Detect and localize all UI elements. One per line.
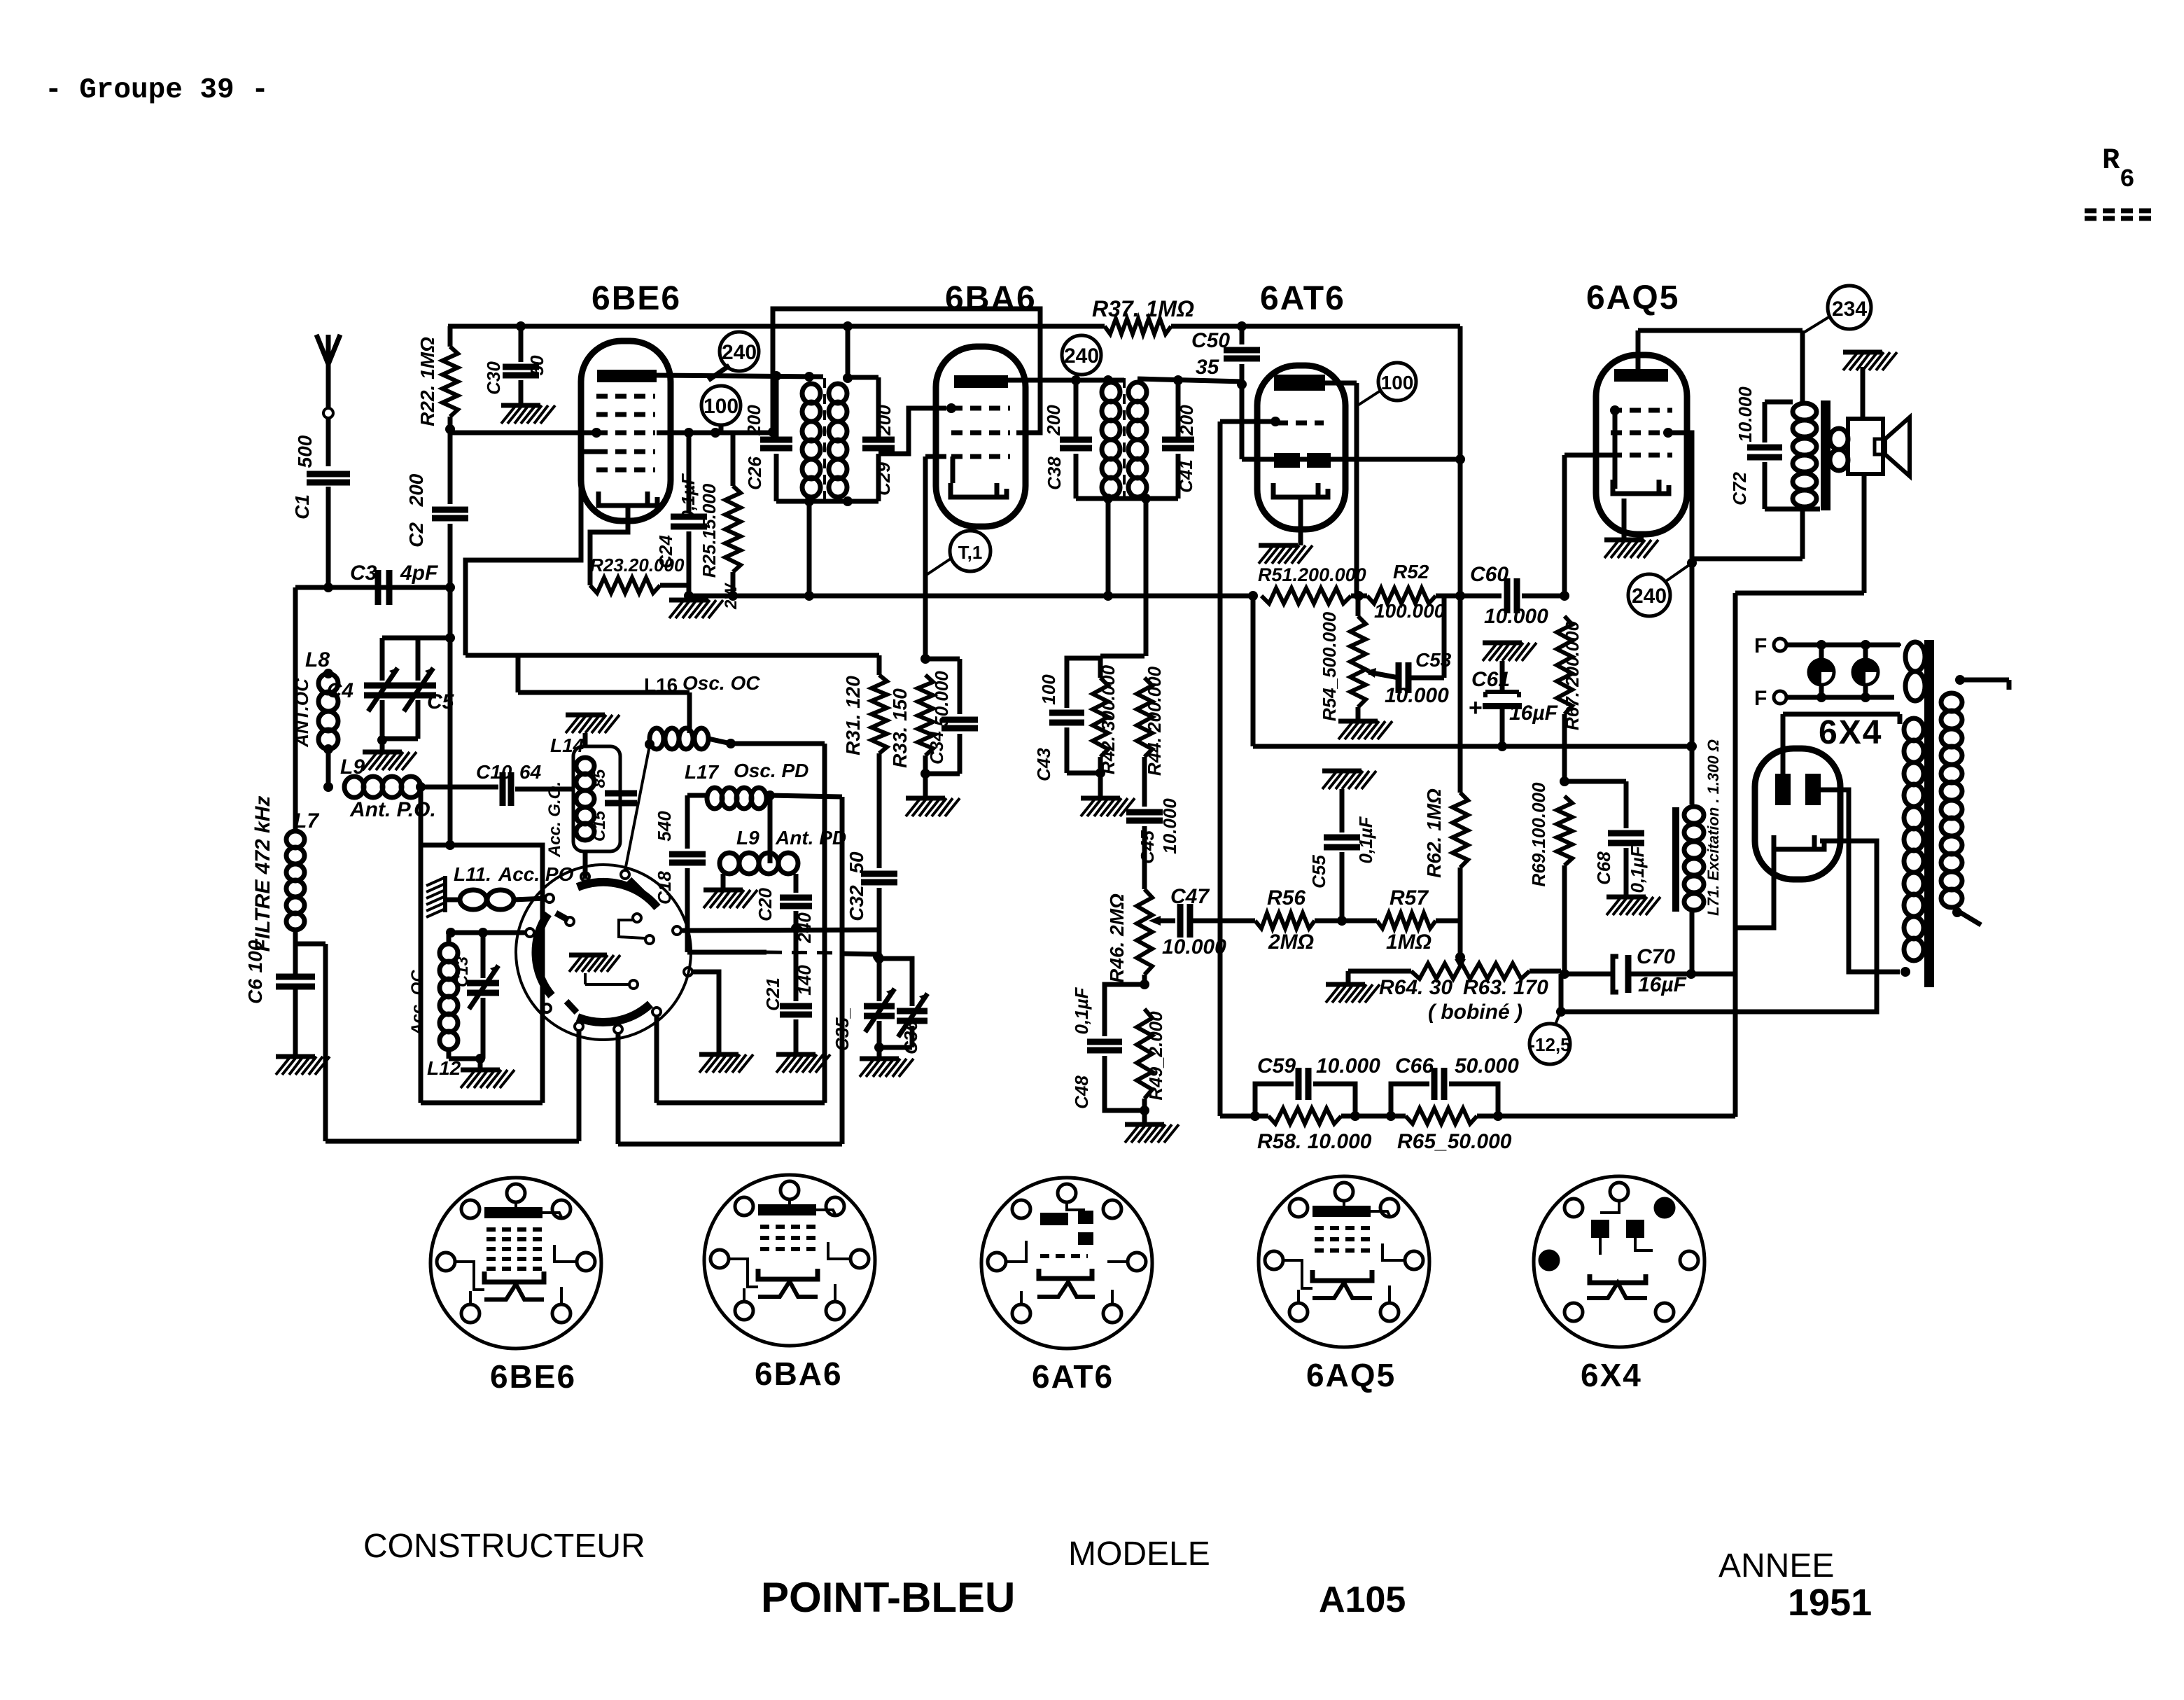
- svg-text:200: 200: [405, 473, 427, 507]
- svg-text:C24: C24: [655, 535, 676, 569]
- svg-text:C41: C41: [1175, 459, 1196, 493]
- svg-text:10.000: 10.000: [1316, 1054, 1380, 1078]
- svg-text:10.000: 10.000: [1159, 798, 1180, 854]
- svg-text:240: 240: [1064, 344, 1099, 368]
- svg-text:L7: L7: [294, 809, 319, 832]
- svg-text:10.000: 10.000: [1484, 605, 1548, 628]
- svg-text:6AT6: 6AT6: [1260, 280, 1345, 317]
- svg-text:1951: 1951: [1788, 1582, 1872, 1624]
- svg-text:T,1: T,1: [958, 542, 983, 563]
- svg-text:R: R: [2102, 144, 2120, 177]
- svg-text:R52: R52: [1393, 561, 1429, 583]
- svg-text:R49_2.000: R49_2.000: [1145, 1011, 1166, 1101]
- svg-text:R37. 1MΩ: R37. 1MΩ: [1092, 296, 1194, 321]
- svg-text:6BE6: 6BE6: [591, 280, 681, 317]
- svg-text:10.000: 10.000: [1162, 935, 1226, 959]
- svg-text:C6: C6: [244, 979, 266, 1004]
- svg-text:L9: L9: [736, 827, 759, 849]
- svg-text:( bobiné ): ( bobiné ): [1428, 1001, 1522, 1024]
- svg-text:C47: C47: [1170, 885, 1210, 908]
- svg-text:Acc. G.O.: Acc. G.O.: [545, 781, 564, 858]
- svg-text:16µF: 16µF: [1509, 702, 1558, 725]
- svg-text:140: 140: [794, 965, 815, 996]
- svg-text:A105: A105: [1319, 1580, 1406, 1620]
- svg-text:6BE6: 6BE6: [490, 1358, 576, 1395]
- svg-text:R65_50.000: R65_50.000: [1397, 1130, 1512, 1153]
- svg-text:C26: C26: [744, 457, 765, 490]
- svg-text:35: 35: [1196, 356, 1220, 379]
- svg-text:L14: L14: [550, 734, 584, 756]
- svg-text:L17: L17: [685, 761, 720, 783]
- svg-text:6X4: 6X4: [1819, 714, 1882, 751]
- svg-text:R22. 1MΩ: R22. 1MΩ: [416, 337, 438, 426]
- svg-text:C35_: C35_: [832, 1008, 853, 1051]
- svg-text:R51.200.000: R51.200.000: [1258, 564, 1366, 585]
- svg-text:R46. 2MΩ: R46. 2MΩ: [1106, 893, 1128, 983]
- svg-text:540: 540: [654, 811, 675, 842]
- svg-text:C10: C10: [476, 761, 512, 783]
- svg-text:C20: C20: [755, 888, 776, 921]
- svg-text:200: 200: [874, 405, 895, 436]
- svg-text:R33. 150: R33. 150: [889, 688, 911, 768]
- svg-text:FILTRE 472 kHz: FILTRE 472 kHz: [251, 796, 274, 952]
- svg-text:C48: C48: [1071, 1075, 1092, 1109]
- svg-text:50: 50: [526, 355, 547, 375]
- svg-text:200: 200: [1043, 405, 1064, 436]
- svg-text:L8: L8: [305, 648, 330, 671]
- svg-text:2MΩ: 2MΩ: [1268, 931, 1314, 954]
- svg-text:0,1µF: 0,1µF: [1627, 845, 1648, 893]
- svg-text:C66: C66: [1395, 1054, 1434, 1078]
- svg-text:100: 100: [703, 395, 738, 418]
- svg-text:C21: C21: [762, 977, 783, 1011]
- svg-text:R69.100.000: R69.100.000: [1528, 782, 1549, 886]
- svg-text:C43: C43: [1033, 748, 1054, 781]
- svg-text:- Groupe 39 -: - Groupe 39 -: [45, 74, 269, 106]
- svg-text:-12,5: -12,5: [1529, 1034, 1570, 1055]
- svg-text:L16: L16: [644, 674, 678, 696]
- svg-text:C36: C36: [900, 1021, 921, 1054]
- svg-text:R58. 10.000: R58. 10.000: [1257, 1130, 1372, 1153]
- svg-text:6AQ5: 6AQ5: [1306, 1357, 1396, 1393]
- svg-text:C61: C61: [1471, 668, 1510, 691]
- svg-text:C68: C68: [1593, 851, 1614, 885]
- svg-text:C55: C55: [1308, 855, 1329, 889]
- svg-text:R57: R57: [1389, 886, 1429, 910]
- svg-text:C29: C29: [873, 462, 894, 496]
- svg-text:6BA6: 6BA6: [755, 1356, 843, 1392]
- svg-text:+: +: [1469, 695, 1483, 721]
- svg-text:L12: L12: [427, 1057, 461, 1079]
- svg-text:Acc. PO: Acc. PO: [498, 863, 574, 885]
- svg-text:200: 200: [1176, 405, 1197, 436]
- svg-text:L11.: L11.: [454, 863, 491, 885]
- svg-text:C32: C32: [846, 885, 867, 921]
- svg-text:200: 200: [743, 405, 764, 436]
- svg-text:50: 50: [846, 851, 867, 874]
- svg-text:240: 240: [1632, 585, 1667, 608]
- svg-text:C45: C45: [1137, 830, 1158, 864]
- svg-text:R25.15.000: R25.15.000: [699, 483, 720, 578]
- svg-text:C50: C50: [1191, 329, 1230, 352]
- svg-text:0,1µF: 0,1µF: [1071, 987, 1092, 1034]
- svg-text:4pF: 4pF: [400, 562, 438, 585]
- svg-text:6AQ5: 6AQ5: [1586, 279, 1679, 316]
- svg-text:F: F: [1754, 687, 1767, 710]
- svg-text:C13: C13: [453, 956, 472, 987]
- svg-text:MODELE: MODELE: [1068, 1535, 1210, 1573]
- svg-text:6AT6: 6AT6: [1032, 1358, 1114, 1395]
- svg-text:50.000: 50.000: [931, 671, 952, 727]
- svg-text:500: 500: [294, 435, 316, 468]
- svg-text:C3: C3: [350, 562, 377, 585]
- svg-text:F: F: [1754, 634, 1767, 657]
- svg-text:CONSTRUCTEUR: CONSTRUCTEUR: [363, 1528, 645, 1565]
- svg-text:6: 6: [2120, 165, 2135, 194]
- svg-text:C70: C70: [1637, 945, 1675, 968]
- svg-text:Ant. PD: Ant. PD: [775, 827, 846, 849]
- svg-text:0,1µF: 0,1µF: [1355, 816, 1376, 863]
- svg-text:C72: C72: [1729, 472, 1750, 506]
- svg-text:R64. 30: R64. 30: [1379, 976, 1452, 999]
- svg-text:6BA6: 6BA6: [945, 280, 1037, 317]
- svg-text:L71. Excitation . 1.300 Ω: L71. Excitation . 1.300 Ω: [1704, 739, 1722, 916]
- svg-text:R63. 170: R63. 170: [1463, 976, 1548, 999]
- svg-text:C1: C1: [291, 494, 313, 520]
- svg-text:Osc. PD: Osc. PD: [734, 760, 808, 781]
- svg-text:C38: C38: [1044, 457, 1065, 490]
- svg-text:100: 100: [1381, 372, 1414, 393]
- svg-text:85: 85: [590, 769, 609, 788]
- svg-text:R54_500.000: R54_500.000: [1319, 611, 1340, 721]
- svg-text:POINT-BLEU: POINT-BLEU: [761, 1574, 1015, 1621]
- svg-text:16µF: 16µF: [1638, 973, 1687, 996]
- svg-text:C60: C60: [1470, 563, 1508, 586]
- svg-text:100.000: 100.000: [1374, 600, 1445, 622]
- svg-text:100: 100: [1038, 674, 1059, 705]
- svg-text:L9: L9: [340, 755, 365, 779]
- svg-text:C4: C4: [327, 679, 354, 702]
- svg-text:Acc. OC: Acc. OC: [408, 970, 427, 1036]
- svg-text:10.000: 10.000: [1735, 386, 1756, 443]
- svg-text:R62. 1MΩ: R62. 1MΩ: [1423, 788, 1445, 878]
- svg-text:6X4: 6X4: [1581, 1357, 1642, 1393]
- svg-text:240: 240: [722, 341, 757, 364]
- svg-text:C59: C59: [1257, 1054, 1296, 1078]
- svg-text:0,1µF: 0,1µF: [678, 473, 699, 520]
- svg-text:R31. 120: R31. 120: [842, 676, 864, 755]
- svg-text:C53: C53: [1415, 649, 1452, 671]
- svg-text:C2: C2: [405, 522, 427, 548]
- svg-text:C30: C30: [483, 361, 504, 395]
- svg-text:1MΩ: 1MΩ: [1386, 931, 1431, 954]
- svg-text:234: 234: [1832, 298, 1867, 321]
- svg-text:ANT.OC: ANT.OC: [291, 678, 312, 748]
- svg-text:ANNEE: ANNEE: [1718, 1547, 1834, 1584]
- svg-text:Osc. OC: Osc. OC: [682, 672, 760, 694]
- svg-text:100: 100: [244, 940, 266, 973]
- svg-text:10.000: 10.000: [1385, 684, 1449, 707]
- svg-text:R56: R56: [1267, 886, 1305, 910]
- svg-text:50.000: 50.000: [1455, 1054, 1519, 1078]
- svg-text:C34: C34: [926, 731, 947, 765]
- svg-text:64: 64: [519, 761, 542, 783]
- svg-text:C15: C15: [590, 810, 609, 842]
- svg-text:R67. 200.000: R67. 200.000: [1562, 620, 1583, 730]
